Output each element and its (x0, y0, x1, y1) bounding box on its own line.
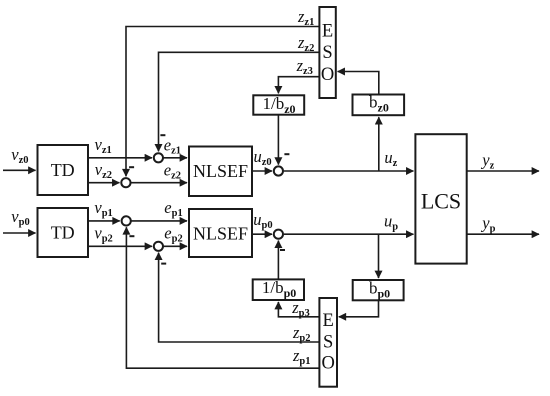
block 1/bp0 (253, 279, 304, 300)
junction C4 (154, 242, 163, 251)
wire v_p1 TD2 to junction C3 (88, 220, 120, 222)
wire z_p2 feedback ESO2 to junction C4 (159, 253, 320, 342)
block NLSEF1 (189, 147, 252, 197)
block b_z0 (353, 95, 405, 116)
wire y_p LCS output (467, 233, 539, 235)
minus sign at junction C3 (129, 235, 134, 237)
wire z_z2 feedback ESO1 to junction C1 (159, 52, 320, 151)
junction C5 (274, 166, 283, 175)
junction C3 (122, 216, 131, 225)
wire u_z0 NLSEF1 to junction C5 (252, 170, 272, 172)
svg-text:S: S (322, 43, 332, 63)
wire z_p3 ESO2 to block 1/bp0 (278, 302, 319, 317)
wire z_p1 feedback ESO2 to junction C3 (126, 227, 319, 368)
block b_p0 (353, 280, 404, 300)
block TD2 (38, 208, 89, 257)
wire u_p0 NLSEF2 to junction C6 (252, 233, 272, 235)
label ESO2 letters (322, 311, 335, 374)
wire e_p1 junction C3 to NLSEF2 (131, 220, 187, 222)
junction C6 (274, 230, 283, 239)
wire b_z0 to ESO1 (338, 72, 379, 95)
junction C2 (121, 178, 130, 187)
wire b_p0 to ESO2 (339, 300, 379, 317)
wire v_p2 TD2 to junction C4 (88, 245, 152, 247)
wire e_z1 junction C1 to NLSEF1 (163, 157, 187, 159)
wire z_z3 ESO1 to block 1/bz0 (278, 77, 319, 94)
svg-text:E: E (323, 311, 334, 331)
svg-text:NLSEF: NLSEF (193, 161, 248, 181)
minus sign at junction C2 (129, 166, 134, 168)
wire v_z0 input arrow (3, 169, 36, 171)
wire v_p0 input arrow (3, 232, 36, 234)
wire y_z LCS output (467, 170, 539, 172)
minus sign at junction C6 (280, 249, 285, 251)
wire u_p junction C6 to LCS (284, 233, 413, 235)
block ESO1 (319, 7, 335, 98)
block NLSEF2 (189, 209, 252, 257)
wire v_z1 TD1 to junction C1 (88, 157, 152, 159)
svg-text:O: O (322, 354, 335, 374)
wire z_z1 feedback ESO1 to junction C2 (126, 27, 319, 177)
svg-text:TD: TD (51, 160, 75, 180)
wire e_p2 junction C4 to NLSEF2 (163, 245, 187, 247)
minus sign at junction C4 (161, 263, 166, 265)
svg-text:LCS: LCS (421, 189, 461, 214)
wire 1/bz0 to junction C5 (277, 115, 279, 165)
wire u_p tap to b_p0 (378, 234, 380, 278)
block 1/bz0 (253, 95, 304, 114)
wire e_z2 junction C2 to NLSEF1 (131, 182, 187, 184)
label ESO1 letters (321, 22, 334, 86)
svg-text:S: S (323, 333, 333, 353)
wire u_z junction C5 to LCS (284, 170, 413, 172)
minus sign at junction C1 (160, 134, 165, 136)
junction C1 (154, 153, 163, 162)
svg-text:E: E (322, 22, 333, 42)
block ESO2 (319, 298, 337, 387)
wire v_z2 TD1 to junction C2 (88, 182, 119, 184)
block LCS (415, 134, 466, 263)
wire 1/bp0 to junction C6 (277, 241, 279, 280)
wire u_z tap to b_z0 (378, 117, 380, 171)
minus sign at junction C5 (284, 153, 289, 155)
svg-text:TD: TD (51, 223, 75, 243)
block TD1 (38, 145, 89, 195)
svg-text:NLSEF: NLSEF (193, 224, 248, 244)
svg-text:O: O (321, 65, 334, 85)
